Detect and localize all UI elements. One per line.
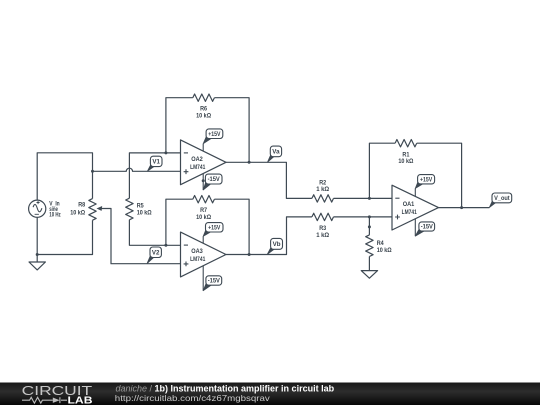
- wire V_in bottom / ground stem: [36, 217, 38, 262]
- resistor R5: [126, 198, 133, 220]
- wire R4 branch: [368, 217, 370, 235]
- junction OA1 inverting node / R1: [368, 197, 371, 200]
- wire OA2 output to R2 (node Va): [226, 162, 392, 198]
- flag -15V (OA1): [415, 222, 434, 236]
- op-amp OA3: [181, 232, 227, 277]
- svg-text:OA3: OA3: [191, 249, 203, 255]
- flag +15V (OA1): [415, 175, 434, 189]
- svg-text:10 kΩ: 10 kΩ: [196, 112, 211, 119]
- svg-text:LM741: LM741: [190, 165, 206, 171]
- svg-text:R6: R6: [200, 105, 207, 112]
- svg-text:-15V: -15V: [421, 224, 434, 231]
- node flag V_out: [489, 193, 511, 208]
- svg-text:LM741: LM741: [190, 257, 206, 263]
- wire R4 to ground: [368, 257, 370, 271]
- wire R1 feedback loop: [369, 143, 461, 207]
- wire OA1 V- pin stub: [414, 219, 416, 236]
- svg-text:daniche / 1b) Instrumentation: daniche / 1b) Instrumentation amplifier …: [116, 384, 335, 394]
- svg-text:+15V: +15V: [208, 225, 221, 232]
- junction R4 top: [368, 225, 371, 228]
- svg-text:V_out: V_out: [494, 195, 510, 202]
- wire R5 bottom to OA3 - input: [129, 220, 180, 246]
- svg-text:Vb: Vb: [273, 241, 281, 248]
- flag -15V (OA3): [203, 276, 222, 291]
- svg-text:10 kΩ: 10 kΩ: [137, 210, 152, 217]
- flag -15V (OA2): [203, 174, 222, 190]
- ground (source): [29, 262, 45, 270]
- resistor labels: [70, 105, 413, 254]
- wire R8 bottom to bottom rail: [37, 220, 92, 254]
- wire OA3 output to R3 (node Vb): [226, 217, 392, 255]
- svg-text:1 kΩ: 1 kΩ: [316, 186, 329, 193]
- junction V_in bottom / ground: [36, 253, 39, 256]
- junction node Vb / R7: [248, 253, 251, 256]
- op-amp OA2: [181, 140, 227, 185]
- wire R6 feedback loop: [166, 98, 249, 163]
- resistor R6: [193, 94, 215, 101]
- junction OA3 inverting node / R7: [164, 244, 167, 247]
- junction node V_out / R1: [460, 206, 463, 209]
- resistor R4: [366, 235, 373, 257]
- node flag Vb: [267, 238, 282, 254]
- svg-text:http://circuitlab.com/c4z67mgb: http://circuitlab.com/c4z67mgbsqrav: [115, 393, 271, 403]
- svg-text:10 kΩ: 10 kΩ: [196, 214, 211, 221]
- svg-text:1 kΩ: 1 kΩ: [316, 232, 329, 239]
- node flag V2: [147, 247, 161, 264]
- svg-text:10 kΩ: 10 kΩ: [398, 158, 413, 165]
- svg-text:10 kΩ: 10 kΩ: [70, 210, 85, 217]
- wire OA1 output to V_out: [439, 207, 490, 209]
- logo zigzag + diode glyph: [22, 397, 67, 403]
- node flag V1: [147, 156, 162, 171]
- svg-text:OA1: OA1: [403, 202, 415, 208]
- node flag Va: [268, 146, 282, 162]
- junction node V1 at R8 top: [91, 170, 94, 173]
- svg-text:R5: R5: [137, 203, 144, 210]
- wire OA3 V- pin stub: [202, 266, 204, 291]
- wire OA2 V- pin stub: [202, 174, 204, 190]
- svg-text:-15V: -15V: [208, 176, 221, 183]
- wire R7 feedback loop: [166, 199, 249, 254]
- svg-text:10 Hz: 10 Hz: [49, 212, 60, 219]
- wire OA3 V+ pin stub: [202, 236, 204, 243]
- svg-text:LM741: LM741: [402, 210, 418, 216]
- wire OA1 V+ pin stub: [414, 188, 416, 196]
- svg-text:+15V: +15V: [420, 176, 433, 183]
- label V_in: [49, 200, 60, 218]
- resistor R7: [193, 196, 215, 203]
- flag +15V (OA3): [203, 223, 223, 237]
- svg-text:OA2: OA2: [191, 157, 203, 163]
- resistor R8 (pot body): [89, 199, 96, 221]
- junction OA2 V- pin: [202, 179, 205, 182]
- junction OA2 inverting node / R6: [164, 151, 167, 154]
- svg-text:+15V: +15V: [208, 131, 221, 138]
- wire V_in top to R8 top: [37, 153, 92, 200]
- svg-text:-15V: -15V: [208, 278, 221, 285]
- R8 wiper arrow: [97, 206, 103, 211]
- wire R5 top to OA2 - input: [129, 153, 180, 198]
- svg-text:R8: R8: [78, 202, 85, 209]
- wire OA2 V+ pin stub: [202, 144, 204, 151]
- voltage source V_in: [29, 200, 46, 217]
- op-amp OA1: [392, 185, 439, 230]
- resistor R3: [312, 213, 334, 220]
- svg-text:V2: V2: [152, 249, 160, 256]
- resistor R1: [395, 140, 417, 147]
- wire R8 wiper to OA3 + input (node V2): [101, 209, 181, 264]
- svg-text:10 kΩ: 10 kΩ: [377, 247, 392, 254]
- junction node Va / R6: [248, 161, 251, 164]
- svg-text:Va: Va: [272, 149, 280, 156]
- ground (R4): [361, 271, 377, 279]
- resistor R2: [312, 195, 334, 202]
- junction OA1 non-inverting node / R3: [368, 215, 371, 218]
- svg-text:LAB: LAB: [68, 395, 93, 405]
- wire node V1: R8 top junction to OA2 + input (hop over R5 wire): [93, 168, 181, 171]
- svg-text:V1: V1: [152, 159, 160, 166]
- flag +15V (OA2): [203, 129, 223, 144]
